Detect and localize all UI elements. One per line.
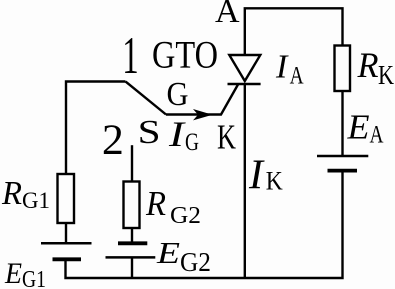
svg-text:R: R — [145, 184, 166, 223]
svg-text:A: A — [370, 122, 384, 149]
svg-text:R: R — [357, 45, 379, 85]
svg-text:I: I — [248, 153, 265, 199]
svg-text:S: S — [138, 114, 161, 151]
svg-text:G2: G2 — [170, 202, 201, 229]
svg-text:E: E — [4, 257, 22, 289]
svg-text:2: 2 — [102, 117, 124, 164]
svg-text:I: I — [168, 114, 187, 154]
svg-text:I: I — [275, 48, 289, 85]
svg-text:E: E — [346, 109, 369, 147]
svg-text:A: A — [290, 62, 304, 89]
svg-text:A: A — [215, 0, 240, 30]
svg-text:K: K — [266, 167, 283, 196]
svg-text:R: R — [1, 175, 22, 212]
svg-text:G2: G2 — [180, 246, 211, 277]
svg-text:K: K — [378, 59, 394, 90]
svg-text:GTO: GTO — [152, 34, 218, 77]
svg-text:K: K — [217, 118, 236, 157]
svg-text:G1: G1 — [22, 188, 50, 213]
svg-text:G1: G1 — [22, 266, 46, 289]
svg-text:1: 1 — [122, 26, 138, 85]
svg-text:G: G — [167, 76, 189, 113]
svg-text:G: G — [185, 129, 199, 156]
svg-text:E: E — [156, 235, 180, 270]
